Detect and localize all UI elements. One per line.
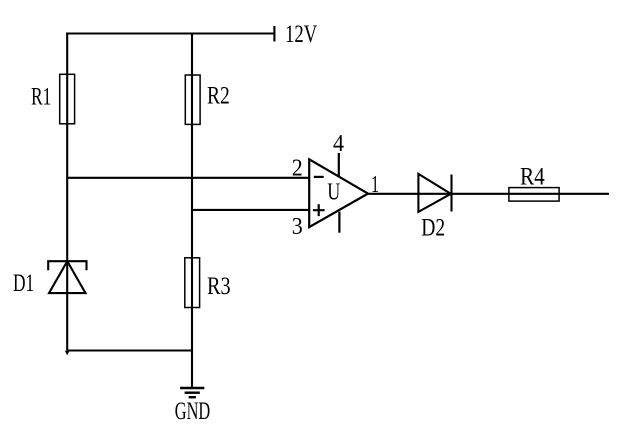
svg-text:4: 4 [333, 131, 344, 157]
svg-text:2: 2 [292, 156, 303, 182]
pin 4 stub [338, 153, 340, 177]
svg-text:12V: 12V [285, 21, 317, 48]
ground symbol [180, 388, 204, 397]
minus sign pin2 [314, 176, 324, 178]
svg-text:D1: D1 [13, 270, 34, 297]
resistor R2 [185, 75, 200, 124]
resistor R1 [60, 74, 75, 124]
wire: left rail (R1 / D1 branch) [66, 34, 68, 351]
wire: bottom wire D1 to ground rail [67, 349, 192, 351]
svg-text:R1: R1 [31, 83, 51, 110]
node 12V terminal bar [273, 26, 275, 42]
node junction dot at D1 bottom corner [65, 351, 70, 356]
wire: +12V top rail [66, 32, 274, 34]
op-amp U [309, 153, 368, 233]
diode D2 [418, 174, 451, 212]
zener diode D1 [48, 261, 86, 293]
svg-text:3: 3 [292, 214, 303, 240]
wire: middle rail (R2 / R3 branch) [191, 34, 193, 388]
svg-text:U: U [327, 180, 340, 206]
resistor R3 [185, 258, 200, 308]
resistor R4 [509, 188, 559, 202]
svg-text:GND: GND [175, 398, 210, 425]
svg-text:R3: R3 [207, 273, 231, 300]
wire: op-amp output through D2 and R4 [368, 193, 609, 195]
svg-text:R2: R2 [207, 83, 230, 110]
wire: op-amp pin 2 input from left rail [67, 177, 309, 179]
negative supply stub [338, 212, 340, 233]
svg-text:1: 1 [371, 172, 379, 198]
plus sign pin3 [313, 204, 325, 216]
svg-text:D2: D2 [421, 215, 445, 242]
wire: op-amp pin 3 input from middle rail [192, 209, 309, 211]
svg-text:R4: R4 [520, 163, 545, 190]
